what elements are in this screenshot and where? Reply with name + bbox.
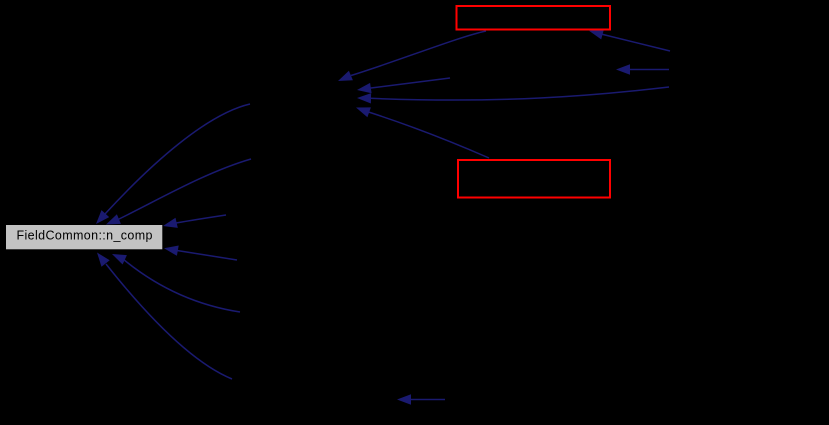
edge: caller 6 -> FieldCommon::n_comp [106, 264, 232, 379]
arrowhead of edge: caller 2 -> FieldCommon::n_comp [106, 214, 121, 224]
arrowhead of edge: red box 1 -> hub node [338, 71, 353, 81]
arrowhead of edge: node W -> hub node [357, 83, 372, 93]
edge: red box 2 -> hub node [367, 112, 489, 159]
arrowhead of edge: red box 2 -> hub node [356, 107, 371, 117]
edge: node W -> hub node [369, 78, 450, 88]
edge: caller 2 -> FieldCommon::n_comp [118, 159, 251, 220]
arrowhead of edge: node RN -> red box 1 [589, 29, 604, 39]
arrowhead of edge: caller 3 -> FieldCommon::n_comp [163, 218, 178, 228]
edge: node RN -> red box 1 [601, 34, 670, 51]
edge: caller 4 -> FieldCommon::n_comp [177, 251, 237, 261]
node: red box 2 (truncated caller, middle) [458, 160, 610, 198]
edge: node RN -> hub node (long swoop) [370, 87, 669, 100]
node: FieldCommon::n_comp (grey highlighted node) [6, 225, 162, 249]
arrowhead of edge: hub node -> FieldCommon::n_comp [96, 210, 109, 224]
node: red box 1 (truncated caller, top) [457, 6, 611, 30]
arrowhead of edge: bottom caller -> bottom callee [397, 394, 411, 404]
arrowhead of edge: caller 4 -> FieldCommon::n_comp [164, 246, 179, 256]
edge: node RN -> node W [629, 69, 669, 71]
arrowhead of edge: caller 6 -> FieldCommon::n_comp [97, 253, 110, 267]
arrowhead of edge: node RN -> node W [616, 64, 630, 74]
arrowhead of edge: caller 5 -> FieldCommon::n_comp [112, 254, 127, 265]
arrowhead of edge: node RN -> hub node (long swoop) [357, 93, 371, 103]
edge: red box 1 -> hub node [351, 31, 486, 76]
edge: hub node -> FieldCommon::n_comp [105, 104, 250, 214]
edge: bottom caller -> bottom callee [411, 399, 445, 401]
edge: caller 5 -> FieldCommon::n_comp [123, 259, 240, 312]
edge: caller 3 -> FieldCommon::n_comp [176, 215, 226, 223]
svg-text:FieldCommon::n_comp: FieldCommon::n_comp [17, 229, 153, 243]
